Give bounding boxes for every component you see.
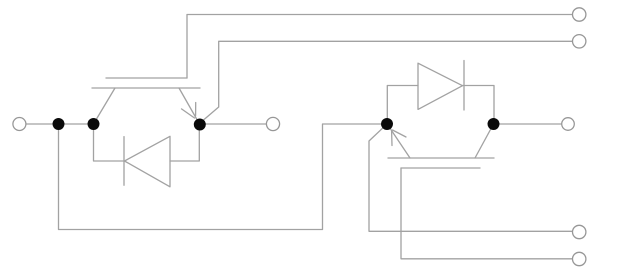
transistor Q2 gate bar [401,167,480,169]
terminal T6 (bottom right lower, open circle) [573,252,586,265]
node N1 (junction) [53,118,65,130]
wire E2aux: node N4 to bottom-right terminal [369,124,573,231]
transistor Q1 emitter arrow barb diagonal [182,109,195,118]
terminal T5 (bottom right upper, open circle) [573,225,586,238]
diode D2 triangle [418,63,463,109]
transistor Q1 body bar [92,87,200,89]
transistor Q1 emitter arrow barb vertical [195,103,197,116]
transistor Q1 collector leg [94,88,116,124]
transistor Q2 collector leg [475,124,494,158]
wire: left terminal to collector nodes [26,123,94,125]
wire: emitter node of Q1 to middle terminal [200,123,266,125]
wire G1: gate of Q1 to top-right terminal [187,15,573,79]
terminal T2 (middle, open circle) [266,117,279,130]
node N5 (collector node of Q2) [488,118,500,130]
terminal T3 (top right upper, open circle) [573,8,586,21]
wire G2: gate of Q2 to lower bottom-right terminal [401,168,573,259]
transistor Q2 emitter arrow barb vertical [391,131,393,146]
terminal T7 (right middle, open circle) [562,118,575,131]
diode D1 triangle [125,136,171,187]
terminal T1 (left, open circle) [13,118,26,131]
wire: node N1 bottom run to emitter node of Q2 [59,124,388,230]
wire: D1 cathode-side vertical from node N2 [94,124,125,161]
diode D2 loop wire right (to node N5) [463,86,495,125]
transistor Q2 body bar [388,157,494,159]
node N3 (emitter node of Q1) [194,119,206,131]
transistor Q1 gate bar [106,77,187,79]
node N2 (junction) [88,118,100,130]
node N4 (emitter node of Q2) [381,118,393,130]
terminal T4 (top right lower, open circle) [573,35,586,48]
diode D2 cathode bar [463,61,465,111]
wire: node N5 to right terminal [494,123,562,125]
wire E1aux: auxiliary emitter of Q1 to second top-right terminal [200,41,573,123]
wire: D1 anode-side to emitter node of Q1 [170,124,199,161]
transistor Q1 emitter leg [179,88,200,124]
transistor Q2 emitter leg [388,125,411,159]
diode D2 loop wire left (node N4 up) [387,86,418,125]
diode D1 cathode bar [123,137,125,186]
transistor Q2 emitter arrow barb diagonal [393,130,407,137]
